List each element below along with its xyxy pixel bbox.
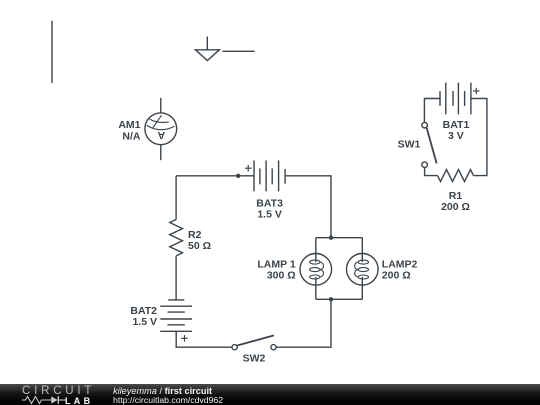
wire (R2 to BAT2 top) bbox=[175, 256, 177, 300]
wire (floating segment, top-left) bbox=[51, 21, 53, 83]
svg-text:1.5 V: 1.5 V bbox=[132, 316, 157, 328]
wire (R1 to BAT1 right lead) bbox=[471, 99, 487, 176]
resistor R1 bbox=[438, 170, 474, 182]
svg-text:1.5 V: 1.5 V bbox=[257, 208, 282, 220]
junction dot bbox=[236, 174, 240, 178]
resistor R2 bbox=[170, 220, 183, 256]
ground bbox=[195, 37, 219, 61]
wire (BAT3 left lead) bbox=[176, 175, 254, 177]
footer title bbox=[113, 386, 212, 396]
svg-text:N/A: N/A bbox=[122, 131, 141, 143]
svg-text:300 Ω: 300 Ω bbox=[267, 269, 296, 281]
svg-text:3 V: 3 V bbox=[448, 130, 464, 142]
footer url bbox=[113, 395, 223, 405]
svg-text:A: A bbox=[157, 129, 165, 141]
wire (BAT3 right lead, down to lamp rail) bbox=[285, 176, 331, 238]
ammeter AM1 bbox=[145, 98, 177, 160]
wire (down from lamps, left to SW2) bbox=[276, 299, 331, 347]
svg-text:LAB: LAB bbox=[65, 396, 93, 405]
wire (R2 top lead) bbox=[175, 176, 177, 220]
svg-text:R2: R2 bbox=[188, 229, 202, 241]
wire (BAT1 left lead down to SW1) bbox=[424, 99, 440, 123]
battery BAT1 bbox=[440, 83, 480, 115]
svg-text:200 Ω: 200 Ω bbox=[382, 269, 411, 281]
wire (lamp bottom rail) bbox=[316, 298, 363, 300]
logo squiggle + LAB bbox=[22, 394, 97, 405]
wire (SW1 to R1) bbox=[425, 168, 438, 176]
battery BAT3 bbox=[245, 160, 285, 191]
wire (lamp top rail) bbox=[316, 237, 363, 239]
svg-text:50 Ω: 50 Ω bbox=[188, 240, 211, 252]
switch SW1 bbox=[422, 122, 437, 167]
svg-text:SW2: SW2 bbox=[243, 353, 266, 365]
svg-text:SW1: SW1 bbox=[398, 139, 421, 151]
switch SW2 bbox=[232, 335, 276, 349]
svg-text:AM1: AM1 bbox=[118, 119, 140, 131]
junction dot bbox=[329, 236, 333, 240]
battery BAT2 bbox=[160, 300, 192, 342]
wire (from ground, to the right) bbox=[223, 50, 255, 52]
junction dot bbox=[329, 297, 333, 301]
svg-text:200 Ω: 200 Ω bbox=[441, 201, 470, 213]
svg-text:BAT1: BAT1 bbox=[443, 119, 470, 131]
lamp LAMP1 bbox=[300, 238, 332, 300]
logo CIRCUIT bbox=[22, 385, 95, 397]
lamp LAMP2 bbox=[347, 238, 379, 300]
footer branding bar bbox=[0, 384, 540, 405]
wire (SW2 to BAT2 bottom) bbox=[176, 331, 232, 347]
